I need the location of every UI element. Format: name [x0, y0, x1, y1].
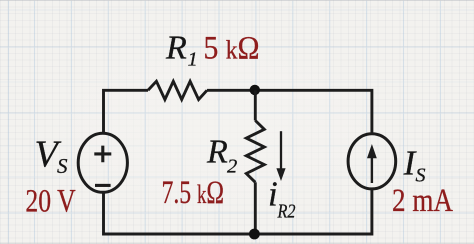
wire bottom: from voltage source bottom to current source bottom — [104, 189, 372, 234]
resistor R2 — [246, 121, 264, 183]
svg-text:1: 1 — [188, 49, 198, 71]
arrow iR2 (current direction, pointing down) — [280, 131, 282, 169]
node B (bottom junction dot) — [249, 229, 260, 240]
wire top-right: from R1 to current source top — [207, 90, 372, 134]
svg-text:R: R — [206, 134, 228, 171]
voltage source VS circle — [78, 133, 127, 192]
minus sign of VS — [95, 184, 111, 187]
arrow inside IS (pointing up) — [371, 155, 373, 183]
svg-text:20 V: 20 V — [25, 183, 75, 219]
svg-text:R: R — [165, 29, 187, 66]
svg-text:R2: R2 — [277, 202, 296, 223]
wire R2 top stem — [254, 90, 257, 120]
svg-text:5 kΩ: 5 kΩ — [204, 31, 260, 67]
plus sign of VS — [94, 146, 111, 163]
resistor R1 — [148, 81, 207, 99]
svg-text:i: i — [268, 175, 278, 214]
svg-text:S: S — [57, 154, 68, 178]
wire top-left: from voltage source top up and right to R1 — [104, 90, 149, 134]
wire R2 bottom stem — [254, 182, 257, 234]
svg-text:7.5 kΩ: 7.5 kΩ — [162, 175, 225, 211]
node A (top junction dot) — [250, 85, 260, 95]
svg-text:2: 2 — [227, 155, 237, 177]
current source IS circle — [348, 134, 396, 189]
svg-text:2 mA: 2 mA — [392, 183, 453, 219]
